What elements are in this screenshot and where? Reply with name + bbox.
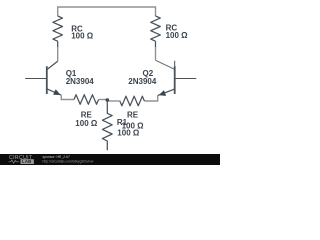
watermark footer bar: [0, 154, 220, 165]
node junction dot: [106, 98, 110, 102]
wire top rail: [58, 7, 156, 16]
wire diagonal to Q2 collector: [156, 60, 175, 69]
wire Q1 emitter down and right: [61, 95, 74, 99]
transistor Q2: [158, 61, 197, 96]
svg-text:2N3904: 2N3904: [128, 77, 157, 86]
resistor RE2 (horizontal): [120, 96, 145, 106]
svg-text:http://circuitlab.com/c6kyg2rh: http://circuitlab.com/c6kyg2rhutvw: [43, 159, 94, 163]
svg-text:R1: R1: [117, 118, 128, 127]
resistor R1 (vertical, center): [102, 100, 112, 150]
wire RC1 to Q1 collector: [57, 47, 59, 61]
wire RE2 to center node: [107, 100, 120, 102]
CircuitLab logo: [9, 155, 34, 164]
wire RC2 down: [155, 47, 157, 60]
wire RE1 to center node: [99, 99, 108, 101]
svg-text:100 Ω: 100 Ω: [117, 129, 140, 138]
sponsor text: [43, 155, 94, 163]
svg-text:100 Ω: 100 Ω: [166, 31, 189, 40]
resistor RC1: [53, 16, 63, 47]
svg-text:100 Ω: 100 Ω: [75, 119, 98, 128]
svg-text:RE: RE: [127, 111, 139, 120]
wire Q2 emitter down and left: [144, 96, 157, 102]
resistor RE1 (horizontal): [74, 95, 99, 105]
svg-text:2N3904: 2N3904: [66, 77, 95, 86]
resistor RC2: [151, 16, 161, 47]
transistor Q1: [25, 61, 61, 95]
svg-text:LAB: LAB: [22, 159, 32, 164]
svg-text:100 Ω: 100 Ω: [71, 32, 94, 41]
